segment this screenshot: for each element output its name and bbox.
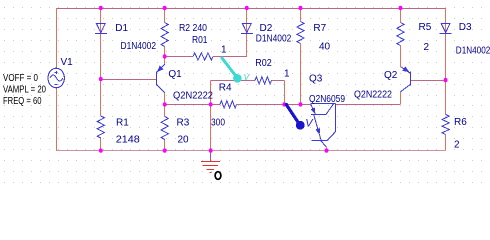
svg-text:FREQ = 60: FREQ = 60 bbox=[3, 96, 42, 107]
node top R7 bbox=[299, 6, 303, 10]
label 2 (R6) bbox=[454, 140, 460, 151]
node D1-Q1 base bbox=[99, 77, 103, 81]
voltage source V1 bbox=[48, 68, 64, 88]
wire R01 left bbox=[165, 56, 193, 58]
svg-text:1: 1 bbox=[221, 44, 227, 55]
wire ground stub bbox=[210, 151, 212, 162]
label R3 bbox=[177, 118, 190, 129]
node R7-Q3 base bbox=[299, 102, 303, 106]
resistor R02 bbox=[255, 77, 272, 84]
node top D2 bbox=[245, 6, 249, 10]
svg-text:R5: R5 bbox=[419, 22, 432, 33]
wire Q1 collector to R4 row bbox=[164, 92, 166, 104]
svg-text:Q1: Q1 bbox=[168, 69, 182, 80]
label 20 bbox=[178, 134, 190, 145]
wire R5 top bbox=[400, 8, 402, 23]
label Q2 bbox=[384, 70, 398, 81]
svg-text:Q2N2222: Q2N2222 bbox=[173, 91, 213, 102]
wire R4 row left bbox=[165, 104, 220, 106]
label R2 240 bbox=[179, 23, 207, 34]
svg-text:D1N4002: D1N4002 bbox=[121, 41, 157, 52]
svg-text:D1N4002: D1N4002 bbox=[456, 45, 490, 56]
wire R02 bend down bbox=[284, 80, 286, 104]
wire R02 row left bbox=[211, 80, 255, 82]
resistor R1 bbox=[97, 116, 104, 138]
label R7 bbox=[313, 23, 326, 34]
wire R3 top bbox=[164, 104, 166, 116]
wire Q3 emitter to bottom rail bbox=[326, 147, 328, 150]
svg-text:300: 300 bbox=[211, 118, 225, 129]
wire R2 bottom bbox=[164, 47, 166, 57]
voltage probe (dark blue) bbox=[286, 105, 304, 130]
svg-text:D1: D1 bbox=[115, 23, 128, 34]
svg-text:R4: R4 bbox=[219, 82, 232, 93]
wire R2 top bbox=[164, 8, 166, 23]
wire R1 to bottom rail bbox=[100, 138, 102, 151]
label 40 bbox=[319, 41, 331, 52]
resistor R6 bbox=[442, 115, 449, 135]
diode D3 bbox=[440, 23, 452, 33]
svg-text:2: 2 bbox=[454, 140, 460, 151]
label D1N4002 (D1) bbox=[121, 41, 157, 52]
svg-text:Q3: Q3 bbox=[309, 74, 323, 85]
wire R01 right bbox=[213, 56, 247, 58]
node bottom R1 bbox=[99, 148, 103, 152]
wire R6 to bottom rail bbox=[445, 135, 447, 151]
svg-text:D2: D2 bbox=[260, 23, 273, 34]
svg-text:R7: R7 bbox=[313, 23, 326, 34]
resistor R3 bbox=[161, 117, 168, 140]
wire Q1 base node to R1 bbox=[100, 79, 102, 116]
svg-text:R01: R01 bbox=[192, 35, 208, 46]
wire Q2 emitter down bbox=[400, 92, 402, 104]
label pin 1 (R02) bbox=[284, 69, 290, 80]
label pin 1 (R01) bbox=[221, 44, 227, 55]
label Q2N2222 (Q1) bbox=[173, 91, 213, 102]
label R1 bbox=[116, 117, 129, 128]
svg-text:Q2N2222: Q2N2222 bbox=[354, 90, 392, 101]
label FREQ = 60 bbox=[3, 96, 42, 107]
svg-text:R3: R3 bbox=[177, 118, 190, 129]
node R2-R01-Q1 bbox=[163, 54, 167, 58]
wire Q1 base bbox=[101, 79, 157, 81]
ground (node 0) bbox=[201, 162, 220, 173]
node bottom R3 bbox=[163, 148, 167, 152]
label R6 bbox=[454, 117, 467, 128]
label V1 bbox=[61, 57, 74, 68]
wire R5 to Q2 bbox=[400, 46, 402, 67]
node R02-R4-probe bbox=[282, 102, 286, 106]
node ground-R4 row bbox=[209, 102, 213, 106]
wire Q2 base node to R6 bbox=[445, 80, 447, 114]
label D1 bbox=[115, 23, 128, 34]
svg-text:Q2: Q2 bbox=[384, 70, 398, 81]
resistor R4 bbox=[220, 101, 237, 108]
node bottom ground bbox=[209, 148, 213, 152]
svg-text:2: 2 bbox=[424, 42, 430, 53]
svg-text:R02: R02 bbox=[255, 58, 272, 69]
label R5 bbox=[419, 22, 432, 33]
label Q2N6059 bbox=[309, 94, 345, 105]
svg-text:1: 1 bbox=[284, 69, 290, 80]
wire Q2 base bbox=[410, 80, 446, 82]
diode D2 bbox=[241, 23, 253, 33]
wire node R2-R01 to Q1 emitter bbox=[164, 57, 166, 65]
label R4 bbox=[219, 82, 232, 93]
svg-text:D1N4002: D1N4002 bbox=[256, 34, 292, 45]
label Q3 bbox=[309, 74, 323, 85]
svg-text:V1: V1 bbox=[61, 57, 74, 68]
node top D1 bbox=[99, 6, 103, 10]
voltage probe (cyan) bbox=[222, 58, 242, 83]
svg-text:D3: D3 bbox=[459, 22, 472, 33]
svg-text:R6: R6 bbox=[454, 117, 467, 128]
wire left rail upper bbox=[56, 8, 58, 68]
node D3-Q2 base-R6 bbox=[444, 78, 448, 82]
svg-text:Q2N6059: Q2N6059 bbox=[309, 94, 345, 105]
wire left rail lower bbox=[56, 88, 58, 151]
label D3 bbox=[459, 22, 472, 33]
label 300 bbox=[211, 118, 225, 129]
label Q2N2222 (Q2) bbox=[354, 90, 392, 101]
label VOFF = 0 bbox=[3, 73, 38, 84]
wire D2 column upper bbox=[246, 8, 248, 57]
label R01 bbox=[192, 35, 208, 46]
svg-text:2148: 2148 bbox=[116, 135, 140, 146]
label D1N4002 (D3) bbox=[456, 45, 490, 56]
wire D1 column upper bbox=[100, 8, 102, 79]
wire R7 top bbox=[300, 8, 302, 22]
svg-text:VAMPL = 20: VAMPL = 20 bbox=[3, 84, 46, 95]
resistor R5 bbox=[397, 23, 404, 46]
node top R5 bbox=[399, 6, 403, 10]
label 2148 bbox=[116, 135, 140, 146]
resistor R7 bbox=[297, 22, 304, 44]
label 2 (R5) bbox=[424, 42, 430, 53]
diode D1 bbox=[95, 23, 107, 33]
transistor Q2 bbox=[400, 66, 410, 92]
label D2 bbox=[260, 23, 273, 34]
label V (blue probe) bbox=[305, 117, 314, 129]
node bottom Q3 emitter bbox=[325, 148, 329, 152]
label V (cyan probe) bbox=[244, 72, 251, 82]
wire R4 right bbox=[237, 104, 310, 106]
wire node to ground column bbox=[210, 80, 212, 150]
label 0 (ground) bbox=[215, 172, 221, 180]
transistor Q3 (darlington) bbox=[311, 104, 336, 148]
label R02 bbox=[255, 58, 272, 69]
svg-text:40: 40 bbox=[319, 41, 331, 52]
wire bottom rail bbox=[56, 150, 446, 152]
node Q1 collector-R4 bbox=[163, 102, 167, 106]
resistor R01 bbox=[193, 53, 213, 60]
transistor Q1 bbox=[157, 64, 165, 92]
wire R3 bottom bbox=[164, 140, 166, 151]
svg-text:R1: R1 bbox=[116, 117, 129, 128]
node top R2 bbox=[163, 6, 167, 10]
wire R7 bottom bbox=[300, 44, 302, 105]
svg-text:VOFF = 0: VOFF = 0 bbox=[3, 73, 38, 84]
label Q1 bbox=[168, 69, 182, 80]
resistor R2 bbox=[161, 23, 168, 47]
wire R02 row right bbox=[271, 80, 284, 82]
wire D3 column upper bbox=[445, 8, 447, 80]
label D1N4002 (D2) bbox=[256, 34, 292, 45]
wire top rail bbox=[56, 8, 446, 10]
label VAMPL = 20 bbox=[3, 84, 46, 95]
svg-text:R2 240: R2 240 bbox=[179, 23, 207, 34]
svg-text:20: 20 bbox=[178, 134, 190, 145]
wire Q3 collector to Q2 emitter bbox=[336, 104, 401, 106]
